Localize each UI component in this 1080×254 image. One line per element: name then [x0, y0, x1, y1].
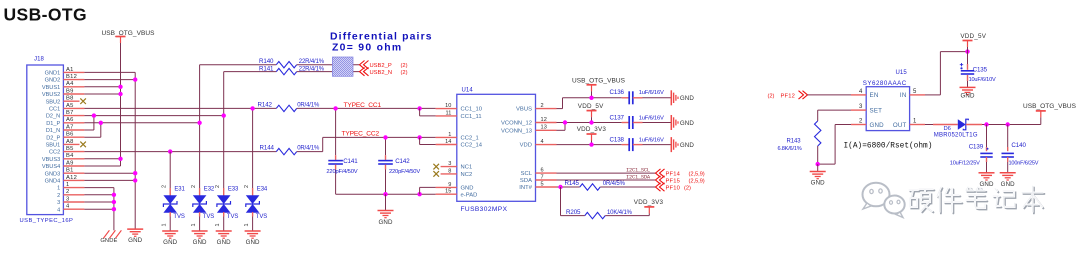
svg-text:1: 1 [448, 132, 451, 138]
svg-text:GND1: GND1 [45, 71, 61, 77]
svg-text:10K/4/1%: 10K/4/1% [607, 210, 633, 216]
wire cap ground rail [336, 192, 436, 211]
svg-text:NC1: NC1 [461, 165, 473, 171]
svg-text:USB2_N: USB2_N [370, 70, 393, 76]
port PF14 [656, 169, 705, 178]
wire I2C1_SCL [557, 167, 656, 173]
svg-text:GND: GND [979, 181, 993, 188]
svg-text:2: 2 [244, 185, 250, 188]
svg-text:INT#: INT# [519, 185, 532, 191]
TVS diode E34 [244, 106, 268, 231]
svg-text:SDA: SDA [520, 178, 532, 184]
svg-text:1: 1 [162, 224, 168, 227]
svg-text:GND: GND [680, 142, 694, 149]
svg-text:VDD_5V: VDD_5V [578, 103, 604, 110]
svg-text:GND: GND [128, 237, 142, 244]
svg-text:4: 4 [541, 139, 544, 145]
ground GND (C139) [979, 173, 995, 188]
svg-text:(2,5,9): (2,5,9) [689, 178, 705, 184]
wire TYPEC_CC2 [84, 149, 276, 153]
svg-text:B7: B7 [66, 110, 74, 116]
svg-text:R143: R143 [787, 139, 802, 145]
differential pair directive box [332, 57, 353, 76]
svg-text:C142: C142 [395, 158, 410, 165]
svg-text:I(A)=6800/Rset(ohm): I(A)=6800/Rset(ohm) [844, 143, 933, 151]
capacitor C136 1uF [610, 89, 672, 104]
svg-text:VCONN_13: VCONN_13 [501, 128, 532, 134]
capacitor C135 10uF [960, 52, 996, 88]
ground GND (under E32) [192, 231, 208, 246]
svg-text:GND: GND [1001, 181, 1015, 188]
svg-text:6: 6 [541, 168, 544, 174]
wire USB2_P riser [197, 65, 201, 184]
svg-text:(2): (2) [768, 93, 775, 99]
svg-text:C141: C141 [343, 158, 358, 165]
svg-text:GND: GND [193, 239, 207, 246]
svg-text:B9: B9 [66, 88, 74, 94]
svg-text:1uF/6/16V: 1uF/6/16V [639, 90, 664, 96]
ground GND (C135) [960, 87, 976, 99]
svg-text:22R/4/1%: 22R/4/1% [299, 59, 325, 65]
svg-text:R140: R140 [259, 58, 274, 65]
power flag USB_OTG_VBUS (at U14) [572, 77, 626, 100]
svg-text:4: 4 [57, 207, 60, 213]
svg-text:GND: GND [461, 186, 474, 192]
svg-text:NC2: NC2 [461, 172, 473, 178]
svg-text:220pF/4/50V: 220pF/4/50V [389, 169, 420, 175]
svg-text:C138: C138 [610, 137, 625, 144]
svg-text:220pF/4/50V: 220pF/4/50V [326, 169, 357, 175]
svg-text:6.8K/6/1%: 6.8K/6/1% [778, 146, 802, 152]
svg-text:1: 1 [244, 224, 250, 227]
svg-text:B5: B5 [66, 146, 74, 152]
svg-text:VDD_5V: VDD_5V [960, 33, 986, 40]
svg-text:B6: B6 [66, 132, 74, 138]
port PF12 [768, 91, 808, 100]
note I(A)=6800/Rset(ohm) [844, 143, 933, 151]
net label TYPEC_CC2 [342, 131, 380, 138]
connector J18 (USB_TYPEC_16P) [20, 56, 85, 224]
svg-text:A9: A9 [66, 160, 74, 166]
svg-text:TVS: TVS [227, 214, 238, 220]
svg-text:J18: J18 [34, 56, 45, 62]
svg-text:TYPEC_CC1: TYPEC_CC1 [344, 102, 382, 109]
svg-text:TYPEC_CC2: TYPEC_CC2 [342, 131, 380, 138]
IC U15 SY6280AAAC [851, 70, 925, 131]
svg-text:A4: A4 [66, 81, 74, 87]
svg-text:VBUS1: VBUS1 [42, 85, 60, 91]
svg-text:SBU1: SBU1 [46, 143, 61, 149]
power flag VDD_5V [578, 103, 604, 125]
svg-text:VBUS4: VBUS4 [42, 164, 60, 170]
svg-text:12: 12 [541, 117, 547, 123]
svg-text:EN: EN [870, 92, 879, 99]
svg-text:A1: A1 [66, 67, 74, 73]
svg-text:I2C1_SCL: I2C1_SCL [626, 167, 650, 173]
svg-text:E33: E33 [228, 187, 239, 193]
svg-text:CC2_14: CC2_14 [461, 143, 483, 149]
svg-text:e-PAD: e-PAD [461, 192, 478, 198]
wire CC1 to pin 11 [417, 106, 435, 116]
wire shield pins to GNDE [84, 188, 116, 231]
svg-text:0R/4/1%: 0R/4/1% [297, 103, 320, 109]
svg-text:2: 2 [162, 185, 168, 188]
svg-text:A6: A6 [66, 117, 74, 123]
wire TYPEC_CC1 [84, 107, 276, 109]
svg-text:10: 10 [445, 103, 451, 109]
ground GND (C137) [671, 115, 694, 130]
capacitor C142 220pF [378, 135, 420, 194]
svg-text:GND: GND [378, 219, 392, 226]
svg-text:8: 8 [448, 168, 451, 174]
wire CC2 to pin 14 [417, 135, 435, 144]
svg-text:R141: R141 [259, 65, 274, 72]
sheet title USB-OTG [4, 5, 88, 25]
power flag VDD_3V3 (R205) [634, 199, 664, 216]
ground GND (C138) [671, 137, 694, 152]
svg-text:GND4: GND4 [45, 179, 61, 185]
wire U14 GND pin to rail [420, 187, 436, 194]
ground GND (under C141/C142) [378, 211, 394, 227]
svg-text:PF10: PF10 [666, 185, 680, 191]
svg-text:2: 2 [191, 185, 197, 188]
wire GND vertical [84, 72, 137, 229]
watermark logo [863, 183, 905, 218]
svg-text:11: 11 [445, 110, 451, 116]
svg-text:B1: B1 [66, 168, 74, 174]
svg-text:10uF/6/10V: 10uF/6/10V [969, 77, 996, 83]
svg-text:SY6280AAAC: SY6280AAAC [863, 80, 907, 87]
svg-text:2: 2 [66, 189, 69, 195]
svg-text:CC1_11: CC1_11 [461, 114, 482, 120]
ground GND (under E31) [162, 231, 178, 246]
no-connect X on NC2 [433, 171, 439, 177]
wire VCONN pins to rail [557, 120, 622, 130]
svg-text:D1_P: D1_P [46, 121, 60, 127]
ground GND (under E33) [216, 231, 232, 246]
svg-text:GND3: GND3 [45, 171, 61, 177]
svg-text:USB_OTG_VBUS: USB_OTG_VBUS [572, 77, 626, 84]
svg-text:VBUS2: VBUS2 [42, 92, 60, 98]
ground GND (C140) [1000, 173, 1016, 188]
svg-text:1: 1 [66, 182, 69, 188]
svg-text:VBUS3: VBUS3 [42, 157, 60, 163]
wire U15 GND pin [816, 125, 852, 172]
capacitor C139 10uF [950, 125, 993, 173]
svg-text:3: 3 [448, 161, 451, 167]
svg-text:U15: U15 [896, 70, 908, 76]
svg-text:1uF/6/16V: 1uF/6/16V [639, 116, 664, 122]
svg-text:4: 4 [66, 204, 70, 210]
svg-text:PF15: PF15 [666, 178, 680, 184]
svg-text:PF14: PF14 [666, 171, 681, 177]
port PF15 [656, 176, 705, 185]
svg-text:B12: B12 [66, 74, 77, 80]
diode D6 MBR0520LT1G [925, 119, 1041, 138]
svg-text:14: 14 [445, 139, 451, 145]
svg-text:PF12: PF12 [781, 93, 795, 99]
svg-text:2: 2 [541, 103, 544, 109]
svg-text:R142: R142 [258, 102, 273, 109]
svg-text:VCONN_12: VCONN_12 [501, 121, 532, 127]
svg-text:2: 2 [215, 185, 221, 188]
net label TYPEC_CC1 [344, 102, 382, 109]
svg-text:MBR0520LT1G: MBR0520LT1G [934, 133, 978, 139]
svg-text:USB_OTG_VBUS: USB_OTG_VBUS [1023, 103, 1077, 110]
svg-text:10uF/12/25V: 10uF/12/25V [950, 160, 980, 166]
svg-text:B4: B4 [66, 153, 74, 159]
svg-text:C135: C135 [973, 66, 988, 73]
svg-text:USB_OTG_VBUS: USB_OTG_VBUS [102, 30, 156, 37]
svg-text:C140: C140 [1011, 142, 1026, 149]
ground GND (C136) [671, 90, 694, 105]
svg-text:GND: GND [870, 122, 885, 129]
svg-text:A12: A12 [66, 175, 77, 181]
svg-text:GND: GND [811, 179, 825, 186]
watermark text [909, 186, 1044, 213]
chassis ground GNDE [100, 230, 121, 244]
wire USB2_N riser [222, 72, 226, 184]
svg-text:GND: GND [680, 95, 694, 102]
svg-text:Differential pairs: Differential pairs [330, 31, 433, 42]
svg-text:SET: SET [870, 107, 883, 114]
svg-text:GND: GND [960, 93, 974, 100]
svg-text:E34: E34 [257, 187, 268, 193]
resistor R140 22R [200, 58, 360, 68]
svg-text:GND: GND [217, 239, 231, 246]
svg-text:GND: GND [246, 239, 260, 246]
wire I2C1_SDA [557, 174, 656, 180]
svg-text:GND2: GND2 [45, 78, 61, 84]
ground GND (R143) [810, 172, 826, 187]
resistor R144 0R [260, 137, 436, 154]
power flag VDD_3V3 (U14) [577, 126, 607, 147]
svg-text:5: 5 [541, 181, 544, 187]
power flag USB_OTG_VBUS (connector side) [102, 30, 156, 87]
svg-text:C137: C137 [610, 115, 625, 122]
TVS diode E32 [191, 184, 215, 231]
svg-text:C139: C139 [969, 143, 984, 150]
no-connect X on SBU2 pin B8 [80, 98, 86, 104]
svg-text:R145: R145 [565, 180, 580, 187]
svg-text:OUT: OUT [893, 122, 907, 129]
ground GND (under E34) [245, 231, 261, 246]
svg-text:1: 1 [215, 224, 221, 227]
capacitor C137 1uF [610, 115, 672, 129]
svg-text:GND: GND [163, 239, 177, 246]
svg-text:GND: GND [680, 120, 694, 127]
resistor R142 0R [258, 102, 436, 112]
resistor R145 0R (INT#) [557, 180, 656, 190]
wire D1_P/D2_P tie (USB2_P) [84, 121, 199, 138]
resistor R143 6.8K (Rset) [778, 110, 852, 164]
svg-text:2: 2 [57, 193, 60, 199]
svg-text:TVS: TVS [203, 214, 214, 220]
svg-text:D2_N: D2_N [46, 114, 60, 120]
svg-text:3: 3 [57, 200, 60, 206]
svg-text:B8: B8 [66, 96, 74, 102]
TVS diode E33 [215, 184, 239, 231]
TVS diode E31 [162, 152, 186, 231]
svg-text:1uF/6/16V: 1uF/6/16V [639, 138, 664, 144]
svg-text:1: 1 [57, 186, 60, 192]
svg-text:(2): (2) [401, 63, 408, 69]
svg-text:A8: A8 [66, 139, 74, 145]
capacitor C138 1uF [610, 137, 672, 152]
svg-text:15: 15 [445, 189, 451, 195]
svg-text:U14: U14 [462, 88, 474, 94]
wire VDD pin4 to rail [557, 144, 622, 146]
svg-text:22R/4/1%: 22R/4/1% [299, 66, 325, 72]
port USB2_N [360, 67, 408, 76]
wire VBUS vertical [84, 85, 122, 166]
wire IN to VDD_5V [925, 49, 970, 95]
svg-text:Z0= 90 ohm: Z0= 90 ohm [332, 42, 402, 53]
svg-text:USB_TYPEC_16P: USB_TYPEC_16P [20, 218, 74, 224]
resistor R141 22R [224, 65, 360, 75]
svg-text:0R/4/5%: 0R/4/5% [603, 181, 626, 187]
resistor R205 10K pull-up [561, 187, 650, 219]
svg-text:D6: D6 [944, 126, 951, 132]
svg-text:R205: R205 [566, 209, 581, 216]
svg-text:IN: IN [900, 92, 907, 99]
port USB2_P [360, 61, 408, 69]
svg-text:C136: C136 [610, 89, 625, 96]
svg-text:A5: A5 [66, 103, 74, 109]
svg-text:USB-OTG: USB-OTG [4, 5, 88, 25]
svg-text:100nF/6/25V: 100nF/6/25V [1009, 160, 1039, 166]
svg-text:VDD_3V3: VDD_3V3 [577, 126, 607, 133]
wire D2_N/D1_N tie (USB2_N) [84, 113, 223, 130]
svg-text:A7: A7 [66, 124, 74, 130]
svg-text:VDD: VDD [520, 143, 532, 149]
ground GND (connector) [127, 229, 143, 244]
svg-text:CC1_10: CC1_10 [461, 107, 483, 113]
svg-text:CC2_1: CC2_1 [461, 136, 479, 142]
svg-text:1: 1 [191, 224, 197, 227]
power flag USB_OTG_VBUS (output) [1023, 103, 1077, 124]
svg-text:3: 3 [66, 196, 69, 202]
svg-text:(2): (2) [401, 70, 408, 76]
svg-text:9: 9 [448, 182, 451, 188]
svg-text:SBU2: SBU2 [46, 99, 61, 105]
svg-text:E32: E32 [204, 187, 215, 193]
power flag VDD_5V (U15) [960, 33, 986, 51]
svg-text:VDD_3V3: VDD_3V3 [634, 199, 664, 206]
capacitor C141 220pF [326, 106, 358, 194]
svg-text:CC2: CC2 [49, 150, 60, 156]
port PF10 [656, 183, 691, 192]
wire PF12 to EN [808, 94, 852, 96]
capacitor C140 100nF [1002, 125, 1039, 173]
wire VBUS pin2 to rail [557, 98, 622, 109]
svg-text:0R/4/1%: 0R/4/1% [297, 146, 320, 152]
svg-text:I2C1_SDA: I2C1_SDA [626, 174, 651, 180]
svg-text:D2_P: D2_P [46, 135, 60, 141]
no-connect X on NC1 [433, 164, 439, 170]
note Differential pairs Z0= 90 ohm [330, 31, 433, 53]
svg-text:GNDE: GNDE [100, 238, 117, 244]
svg-text:TVS: TVS [256, 214, 267, 220]
no-connect X on SBU1 pin A8 [80, 142, 86, 148]
svg-text:E31: E31 [174, 187, 185, 193]
svg-text:R144: R144 [260, 145, 275, 152]
svg-text:SCL: SCL [521, 171, 533, 177]
IC U14 FUSB302MPX [436, 88, 557, 213]
svg-text:FUSB302MPX: FUSB302MPX [461, 206, 508, 213]
svg-text:USB2_P: USB2_P [370, 63, 392, 69]
svg-text:D1_N: D1_N [46, 128, 60, 134]
svg-text:(2): (2) [684, 185, 691, 191]
svg-text:(2,5,9): (2,5,9) [689, 171, 705, 177]
svg-text:TVS: TVS [173, 214, 184, 220]
svg-text:7: 7 [541, 174, 544, 180]
svg-text:CC1: CC1 [49, 107, 60, 113]
svg-text:13: 13 [541, 125, 547, 131]
svg-text:VBUS: VBUS [516, 107, 532, 113]
